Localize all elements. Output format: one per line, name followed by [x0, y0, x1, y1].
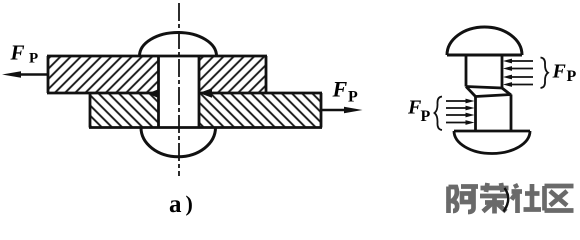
rivet head top dome — [140, 33, 217, 57]
rivet detail lower shank — [476, 95, 512, 132]
label Fp right — [332, 77, 359, 106]
svg-text:): ) — [186, 191, 193, 216]
upper plate outline — [47, 56, 267, 93]
svg-text:a: a — [169, 191, 182, 218]
shear offset step — [466, 87, 511, 97]
lower plate outline — [89, 93, 322, 128]
interface slip arrow left — [148, 89, 160, 99]
svg-text:F: F — [332, 77, 348, 102]
brace left — [435, 97, 443, 131]
watermark char 阿 — [449, 187, 479, 214]
svg-text:F: F — [552, 61, 567, 83]
watermark char 荣 — [480, 183, 509, 214]
label Fp detail right — [552, 61, 577, 86]
lower plate hatching — [90, 93, 321, 128]
label Fp left — [10, 41, 39, 67]
watermark char 社 — [512, 184, 542, 213]
label b) paren — [504, 188, 509, 212]
plate interface line — [47, 92, 322, 95]
centerline — [178, 3, 180, 176]
watermark char 区 — [545, 186, 574, 211]
svg-text:F: F — [10, 41, 25, 65]
brace right — [541, 58, 549, 89]
rivet detail upper shank — [466, 55, 502, 88]
label Fp detail left — [407, 97, 431, 126]
label a) — [169, 191, 193, 218]
bearing arrows lower left group — [446, 99, 475, 125]
rivet head bottom dome — [141, 128, 216, 157]
rivet detail bottom head — [454, 131, 530, 154]
svg-text:P: P — [29, 51, 38, 67]
svg-text:P: P — [348, 89, 358, 106]
svg-text:P: P — [567, 68, 577, 85]
upper plate hatching — [48, 56, 266, 93]
interface slip arrow right — [199, 88, 212, 98]
bearing arrows upper right group — [503, 59, 533, 87]
svg-text:P: P — [421, 108, 431, 125]
rivet shank hole edges — [159, 56, 200, 128]
force arrow Fp left — [2, 71, 48, 78]
rivet detail top head — [447, 27, 522, 55]
force arrow Fp right — [321, 107, 363, 114]
